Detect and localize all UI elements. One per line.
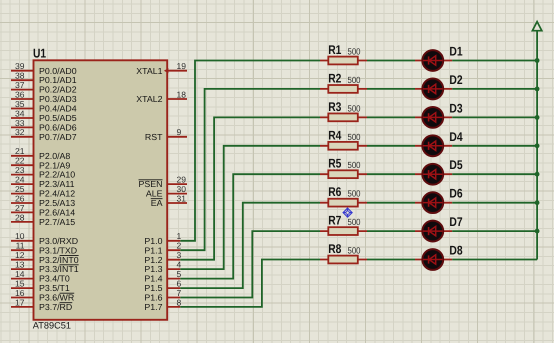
svg-text:P3.7/RD: P3.7/RD xyxy=(39,302,72,312)
svg-text:1: 1 xyxy=(177,231,182,241)
svg-text:P3.1/TXD: P3.1/TXD xyxy=(39,245,77,255)
svg-text:P3.6/WR: P3.6/WR xyxy=(39,293,74,303)
svg-text:9: 9 xyxy=(177,127,182,137)
svg-text:AT89C51: AT89C51 xyxy=(33,321,71,331)
svg-text:P1.4: P1.4 xyxy=(144,274,162,284)
svg-text:32: 32 xyxy=(15,127,25,137)
svg-text:XTAL1: XTAL1 xyxy=(136,66,162,76)
svg-text:R7: R7 xyxy=(328,214,341,228)
svg-text:29: 29 xyxy=(177,175,187,185)
svg-text:500: 500 xyxy=(348,75,361,85)
svg-text:D4: D4 xyxy=(449,130,462,144)
svg-text:500: 500 xyxy=(348,217,361,227)
svg-text:500: 500 xyxy=(348,47,361,57)
svg-text:P1.6: P1.6 xyxy=(144,293,162,303)
svg-text:P1.3: P1.3 xyxy=(144,264,162,274)
svg-text:10: 10 xyxy=(15,231,25,241)
svg-text:P3.4/T0: P3.4/T0 xyxy=(39,274,70,284)
svg-text:18: 18 xyxy=(177,90,187,100)
svg-text:500: 500 xyxy=(348,189,361,199)
svg-text:37: 37 xyxy=(15,80,25,90)
svg-text:R5: R5 xyxy=(328,157,341,171)
svg-text:D1: D1 xyxy=(449,45,462,59)
svg-text:D8: D8 xyxy=(449,244,462,258)
svg-text:P0.3/AD3: P0.3/AD3 xyxy=(39,94,77,104)
svg-text:RST: RST xyxy=(145,132,163,142)
svg-text:D5: D5 xyxy=(449,158,462,172)
svg-text:500: 500 xyxy=(348,103,361,113)
svg-text:35: 35 xyxy=(15,99,25,109)
svg-text:XTAL2: XTAL2 xyxy=(136,94,162,104)
svg-text:D2: D2 xyxy=(449,73,462,87)
svg-text:P2.2/A10: P2.2/A10 xyxy=(39,170,75,180)
svg-text:R8: R8 xyxy=(328,242,341,256)
svg-text:500: 500 xyxy=(348,246,361,256)
svg-text:19: 19 xyxy=(177,61,187,71)
svg-text:P2.3/A11: P2.3/A11 xyxy=(39,179,75,189)
svg-text:R2: R2 xyxy=(328,71,341,85)
svg-text:8: 8 xyxy=(177,297,182,307)
svg-text:500: 500 xyxy=(348,132,361,142)
svg-text:500: 500 xyxy=(348,160,361,170)
svg-text:P2.6/A14: P2.6/A14 xyxy=(39,208,75,218)
svg-text:28: 28 xyxy=(15,212,25,222)
svg-text:24: 24 xyxy=(15,175,25,185)
svg-text:31: 31 xyxy=(177,193,187,203)
svg-text:P3.3/INT1: P3.3/INT1 xyxy=(39,264,79,274)
svg-text:6: 6 xyxy=(177,278,182,288)
svg-text:39: 39 xyxy=(15,61,25,71)
svg-text:PSEN: PSEN xyxy=(139,179,163,189)
svg-text:EA: EA xyxy=(151,198,163,208)
svg-text:4: 4 xyxy=(177,260,182,270)
svg-text:13: 13 xyxy=(15,260,25,270)
svg-text:R1: R1 xyxy=(328,43,341,57)
svg-text:P0.7/AD7: P0.7/AD7 xyxy=(39,132,77,142)
svg-text:R3: R3 xyxy=(328,100,341,114)
svg-text:D6: D6 xyxy=(449,187,462,201)
svg-text:R6: R6 xyxy=(328,185,341,199)
svg-text:P0.5/AD5: P0.5/AD5 xyxy=(39,113,77,123)
svg-text:17: 17 xyxy=(15,297,25,307)
svg-text:23: 23 xyxy=(15,165,25,175)
svg-text:R4: R4 xyxy=(328,128,341,142)
svg-text:P2.0/A8: P2.0/A8 xyxy=(39,151,70,161)
svg-text:P1.1: P1.1 xyxy=(144,245,162,255)
svg-text:P1.7: P1.7 xyxy=(144,302,162,312)
svg-text:D7: D7 xyxy=(449,215,462,229)
svg-text:15: 15 xyxy=(15,278,25,288)
svg-text:27: 27 xyxy=(15,203,25,213)
svg-text:D3: D3 xyxy=(449,101,462,115)
svg-text:P2.7/A15: P2.7/A15 xyxy=(39,217,75,227)
svg-text:P0.1/AD1: P0.1/AD1 xyxy=(39,75,77,85)
svg-text:U1: U1 xyxy=(33,46,46,61)
